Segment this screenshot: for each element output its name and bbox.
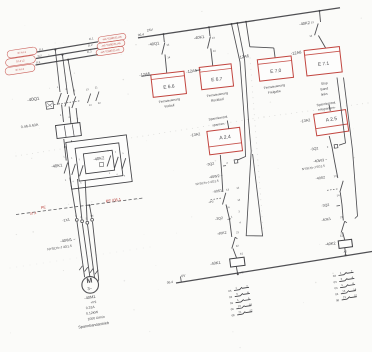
svg-text:0.12KW: 0.12KW <box>86 310 99 316</box>
svg-text:13: 13 <box>212 36 216 40</box>
svg-text:-40Q1: -40Q1 <box>27 96 40 103</box>
svg-text:PE /08.1: PE /08.1 <box>105 196 122 203</box>
svg-text:1L2: 1L2 <box>88 43 94 48</box>
svg-text:-3Q2: -3Q2 <box>310 146 319 151</box>
svg-text:-40K1: -40K1 <box>321 217 331 222</box>
svg-text:+P2: +P2 <box>90 300 97 305</box>
svg-text:03: 03 <box>333 274 337 278</box>
svg-text:NYSLYo-J 5G1.5: NYSLYo-J 5G1.5 <box>302 164 326 171</box>
svg-text:-40K2: -40K2 <box>325 240 336 246</box>
svg-text:Vorlauf: Vorlauf <box>164 103 175 108</box>
svg-text:13: 13 <box>237 304 241 308</box>
svg-text:03: 03 <box>333 280 337 284</box>
svg-text:Freigabe: Freigabe <box>268 89 282 95</box>
svg-text:22: 22 <box>98 102 102 105</box>
svg-text:1: 1 <box>231 215 234 219</box>
svg-text:07.4: 07.4 <box>30 211 37 216</box>
svg-text:0.31A: 0.31A <box>86 305 96 310</box>
svg-text:3: 3 <box>340 277 343 281</box>
svg-text:-3Q2: -3Q2 <box>206 162 215 167</box>
svg-text:spannen: spannen <box>212 122 225 128</box>
svg-text:2: 2 <box>327 145 330 149</box>
svg-text:5: 5 <box>341 283 344 287</box>
svg-text:13: 13 <box>86 88 90 91</box>
svg-text:5: 5 <box>237 298 240 302</box>
svg-text:A1: A1 <box>240 251 244 256</box>
svg-text:links: links <box>321 92 328 97</box>
svg-text:06: 06 <box>230 307 234 311</box>
svg-text:14: 14 <box>213 49 217 53</box>
svg-text:3: 3 <box>86 218 88 220</box>
svg-text:1L2: 1L2 <box>37 53 42 58</box>
svg-text:-40K2: -40K2 <box>299 20 311 27</box>
svg-text:03: 03 <box>334 286 338 290</box>
svg-text:-40S1: -40S1 <box>212 189 222 194</box>
svg-text:-40K1: -40K1 <box>193 34 205 41</box>
svg-text:2: 2 <box>80 217 82 219</box>
svg-text:13: 13 <box>236 187 240 190</box>
svg-text:08: 08 <box>231 313 235 317</box>
svg-text:22: 22 <box>236 244 240 248</box>
svg-text:14: 14 <box>336 193 340 197</box>
svg-text:14: 14 <box>237 199 241 202</box>
svg-text:24V: 24V <box>147 28 154 33</box>
svg-text:03: 03 <box>228 289 232 293</box>
svg-text:0V: 0V <box>181 274 186 279</box>
svg-text:0.46-0.63A: 0.46-0.63A <box>21 123 40 130</box>
svg-text:2: 2 <box>226 161 229 165</box>
svg-text:03: 03 <box>230 301 234 305</box>
svg-text:Spannkontrol.: Spannkontrol. <box>208 115 228 122</box>
svg-text:3: 3 <box>236 292 239 296</box>
svg-text:2: 2 <box>65 180 67 182</box>
svg-text:21: 21 <box>238 310 242 314</box>
svg-text:13: 13 <box>226 187 230 191</box>
svg-text:13: 13 <box>311 20 315 24</box>
svg-text:-40K2: -40K2 <box>217 231 227 236</box>
svg-text:+P2: +P2 <box>208 200 214 205</box>
svg-text:1: 1 <box>235 286 238 290</box>
svg-text:1L3: 1L3 <box>87 49 93 54</box>
svg-text:-12A6: -12A6 <box>186 68 198 75</box>
svg-text:-12A6: -12A6 <box>290 49 302 56</box>
svg-text:Band: Band <box>320 86 328 91</box>
svg-text:-40W1 ~: -40W1 ~ <box>60 236 76 243</box>
svg-text:1L3: 1L3 <box>36 60 41 65</box>
svg-text:21: 21 <box>343 295 347 299</box>
svg-text:14: 14 <box>226 205 230 209</box>
svg-text:1: 1 <box>340 271 343 275</box>
svg-text:13: 13 <box>166 43 170 47</box>
svg-text:21: 21 <box>95 86 99 89</box>
svg-text:6: 6 <box>77 118 79 120</box>
svg-text:-3Q2: -3Q2 <box>215 216 224 221</box>
svg-text:1: 1 <box>57 87 59 89</box>
svg-text:14: 14 <box>89 104 93 107</box>
svg-text:-40K1: -40K1 <box>51 162 63 169</box>
svg-text:NYSLYo-J 4G1.5: NYSLYo-J 4G1.5 <box>47 244 72 252</box>
svg-text:06: 06 <box>335 292 339 296</box>
svg-text:14: 14 <box>309 34 313 38</box>
svg-text:14: 14 <box>167 55 171 59</box>
svg-text:-40W3 ~: -40W3 ~ <box>313 158 327 164</box>
svg-text:13: 13 <box>342 289 346 293</box>
svg-text:1L1: 1L1 <box>39 47 44 52</box>
svg-text:-12A6: -12A6 <box>139 71 151 78</box>
svg-text:-13A2: -13A2 <box>190 132 201 137</box>
svg-text:4: 4 <box>239 221 241 224</box>
svg-text:1L1: 1L1 <box>89 36 95 41</box>
svg-text:-3Q2: -3Q2 <box>321 203 330 208</box>
svg-text:-1X1: -1X1 <box>62 218 70 223</box>
svg-text:03: 03 <box>229 295 233 299</box>
svg-text:5: 5 <box>74 90 76 92</box>
svg-text:21: 21 <box>236 230 240 234</box>
svg-text:06.4: 06.4 <box>167 280 174 285</box>
svg-text:PE: PE <box>41 205 47 210</box>
svg-text:M: M <box>86 277 93 285</box>
svg-text:-13A2: -13A2 <box>300 118 311 123</box>
svg-text:08: 08 <box>336 298 340 302</box>
svg-text:-40K1: -40K1 <box>210 260 221 266</box>
svg-text:Spannbandantrieb: Spannbandantrieb <box>78 321 109 330</box>
svg-text:2: 2 <box>60 115 62 117</box>
svg-text:PE: PE <box>91 215 95 217</box>
svg-text:1: 1 <box>63 156 65 158</box>
svg-text:Rücklauf: Rücklauf <box>211 97 224 103</box>
svg-text:3~: 3~ <box>87 286 93 292</box>
svg-text:NYSLYo-J 4G1.5: NYSLYo-J 4G1.5 <box>195 179 219 186</box>
svg-text:-40S2: -40S2 <box>315 175 325 180</box>
svg-text:Stop: Stop <box>321 81 328 86</box>
svg-text:1000 U/min: 1000 U/min <box>87 315 105 322</box>
svg-text:3: 3 <box>238 210 240 213</box>
svg-text:-40Q1: -40Q1 <box>148 40 161 47</box>
